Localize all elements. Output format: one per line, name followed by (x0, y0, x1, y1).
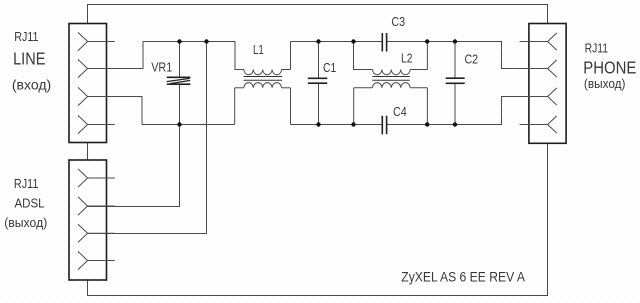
wire top rail left (143, 41, 235, 43)
connector J1 pin 2 (78, 59, 115, 77)
varistor VR1 (167, 77, 191, 84)
svg-text:C3: C3 (391, 14, 405, 29)
connector J3 pin 1 (520, 33, 557, 50)
connector J2 pin 2 (78, 197, 115, 215)
svg-text:C1: C1 (323, 61, 336, 75)
svg-text:LINE: LINE (13, 48, 45, 68)
svg-text:(вход): (вход) (12, 77, 51, 93)
transformer L1 (235, 42, 291, 125)
connector J1 RJ11 LINE (69, 24, 107, 143)
connector J1 pin 3 (78, 87, 115, 105)
wire top rail right (387, 42, 520, 69)
connector J3 pin 2 (520, 60, 557, 77)
wire top rail middle (291, 41, 383, 43)
connector J3 RJ11 PHONE (529, 24, 566, 144)
wire bottom rail right (387, 97, 520, 125)
svg-text:RJ11: RJ11 (14, 30, 38, 44)
wire VR1 bottom stem to ADSL pin2 (88, 84, 180, 206)
wire bottom rail middle (291, 124, 383, 126)
node bottom rail junctions (177, 122, 457, 126)
wire LINE pin3 dropper (88, 97, 142, 125)
connector J1 pin 1 (78, 32, 115, 50)
wire bottom link ADSL->PHONE (88, 143, 548, 295)
node top rail junctions (177, 39, 457, 43)
svg-text:(выход): (выход) (4, 215, 47, 230)
wire LINE->ADSL link (87, 143, 89, 161)
svg-text:L1: L1 (253, 43, 264, 57)
wire VR1 top stem (179, 42, 181, 78)
svg-text:ADSL: ADSL (15, 196, 45, 211)
capacitor C2 (446, 42, 465, 125)
capacitor C3 (382, 33, 386, 52)
svg-text:C4: C4 (393, 104, 407, 119)
capacitor C1 (308, 42, 328, 125)
svg-text:(выход): (выход) (584, 76, 626, 91)
wire ADSL pin3 branch (88, 42, 207, 234)
connector J3 pin 3 (520, 88, 557, 105)
svg-text:ZyXEL AS 6 EE REV A: ZyXEL AS 6 EE REV A (401, 270, 525, 285)
svg-text:RJ11: RJ11 (585, 42, 609, 56)
svg-text:PHONE: PHONE (583, 58, 636, 78)
connector J2 pin 3 (78, 224, 115, 242)
wire LINE pin2 riser (88, 42, 143, 69)
connector J2 RJ11 ADSL (69, 160, 107, 280)
wire bottom rail left (142, 124, 235, 126)
svg-text:C2: C2 (465, 52, 479, 67)
connector J2 pin 4 (78, 251, 115, 269)
transformer L2 (354, 42, 428, 125)
connector J1 pin 4 (78, 115, 115, 133)
svg-text:L2: L2 (401, 51, 412, 66)
wire top link LINE->PHONE (88, 5, 548, 24)
svg-text:RJ11: RJ11 (14, 177, 39, 191)
connector J2 pin 1 (78, 169, 115, 187)
capacitor C4 (382, 116, 386, 135)
svg-text:VR1: VR1 (151, 60, 172, 74)
connector J3 pin 4 (520, 116, 557, 133)
